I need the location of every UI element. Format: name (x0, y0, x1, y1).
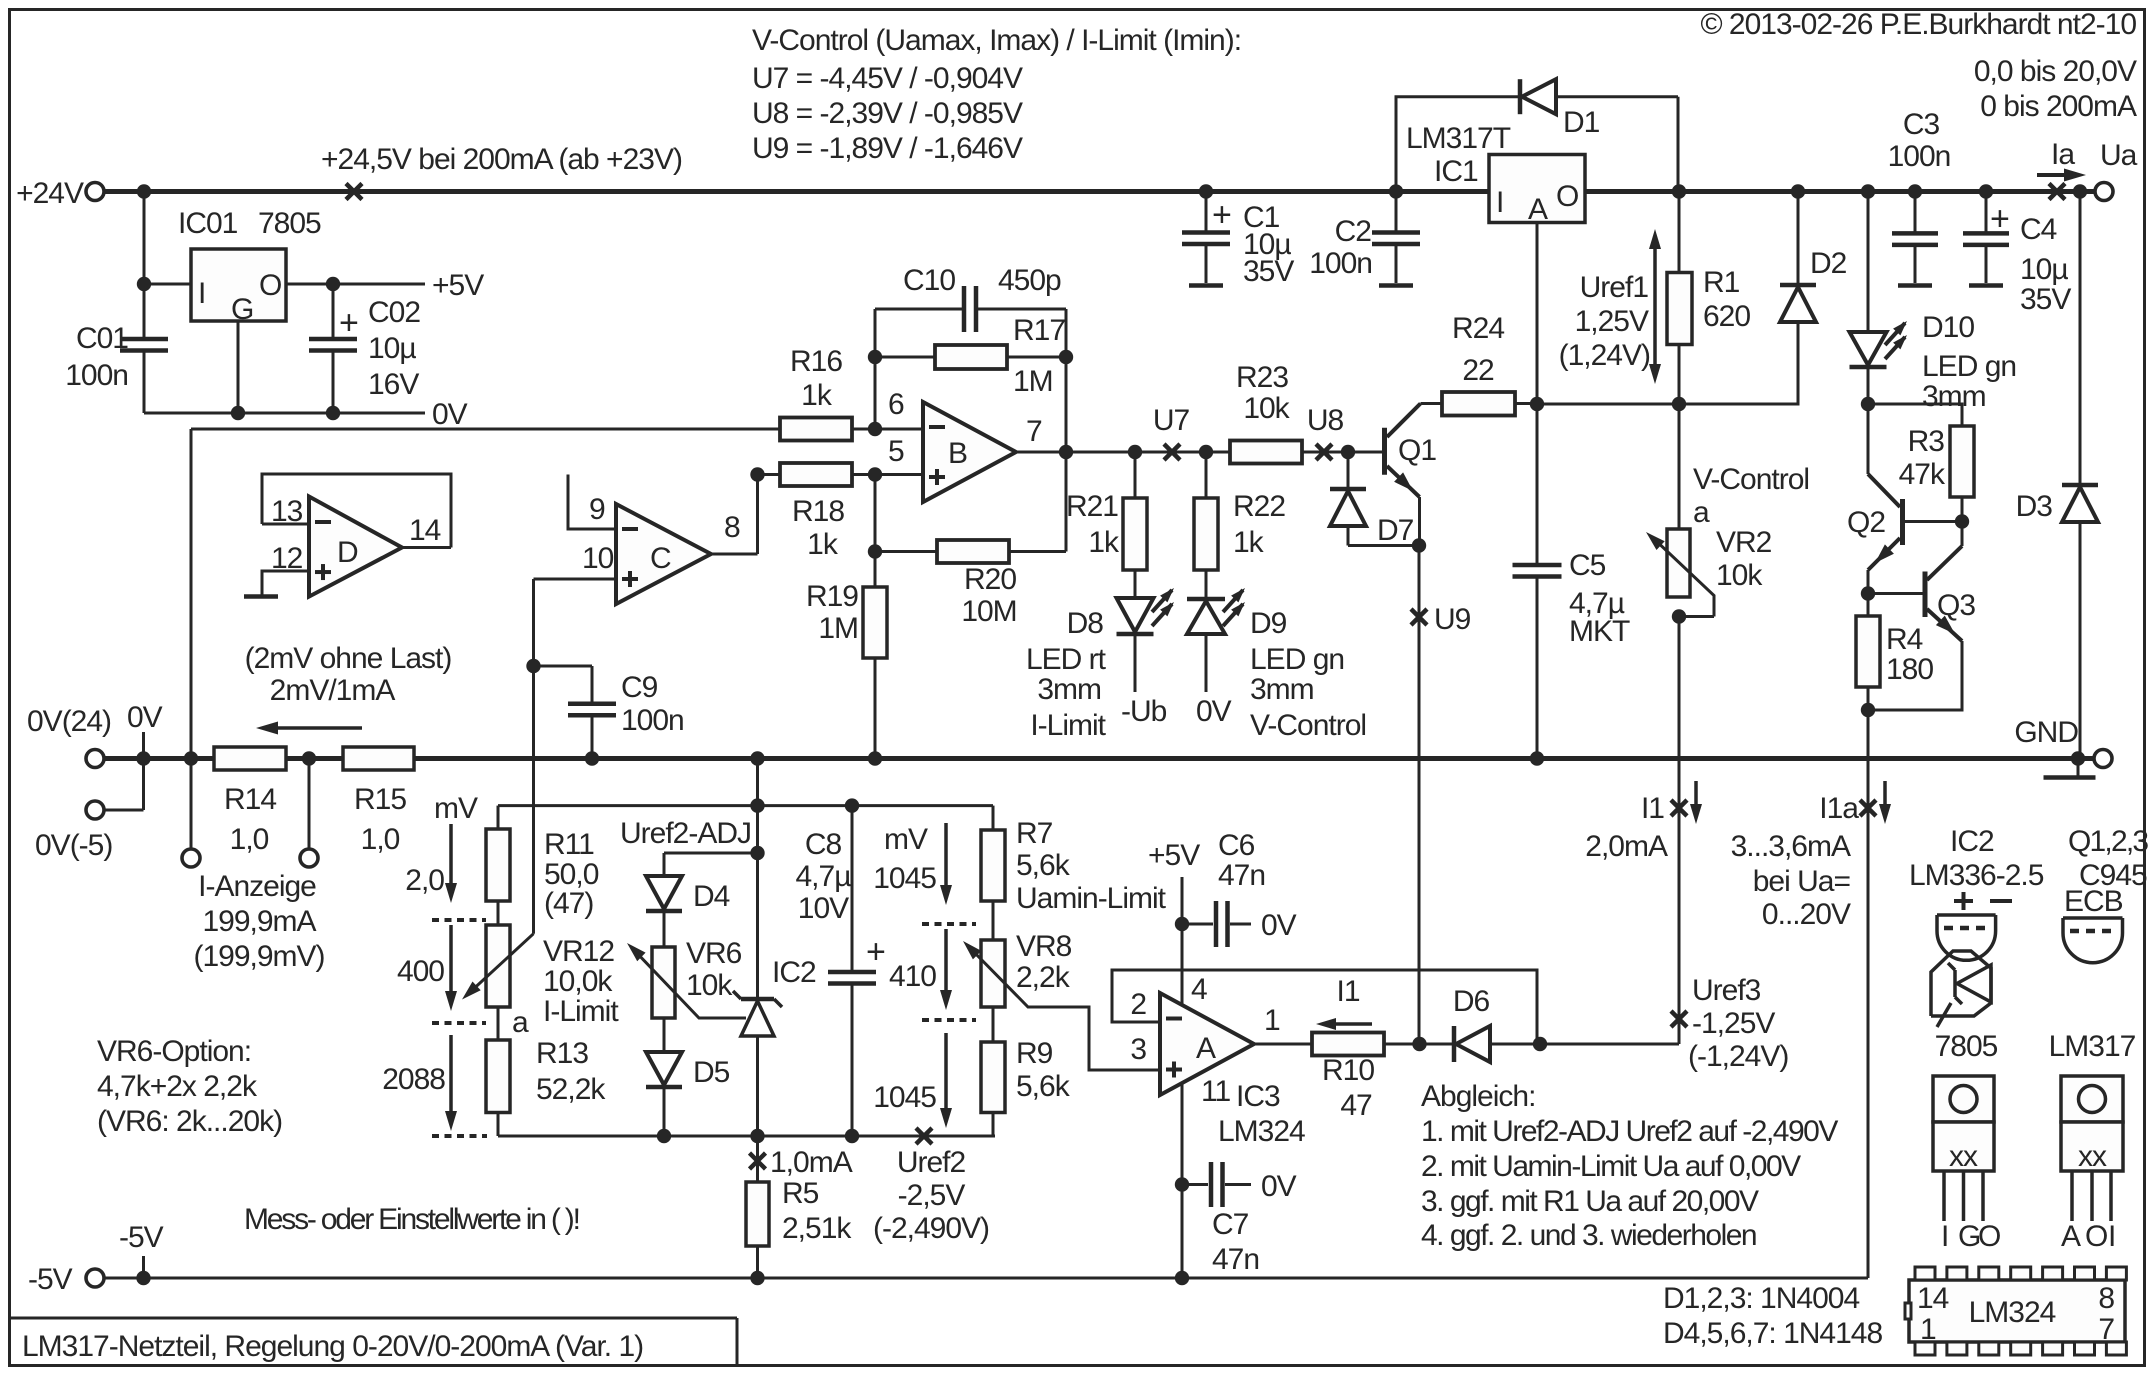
node D10 bottom junction (1861, 397, 1875, 411)
resistor R11 (497, 806, 500, 829)
node 0V terminal junction (136, 751, 150, 765)
wire divider top (756, 759, 759, 806)
svg-text:10µ: 10µ (2020, 253, 2068, 286)
terminal GND (2094, 750, 2112, 768)
svg-text:C: C (650, 542, 671, 575)
svg-text:LM317T: LM317T (1406, 122, 1511, 155)
svg-text:+5V: +5V (432, 269, 484, 302)
op-amp C pin 10 wire (534, 578, 617, 581)
wire sense line to R16 (191, 428, 780, 431)
svg-text:IC2: IC2 (772, 956, 816, 989)
resistor R15 (343, 747, 414, 770)
svg-text:-5V: -5V (119, 1221, 164, 1254)
svg-text:10M: 10M (961, 595, 1016, 628)
net 0V rail (103, 756, 2094, 761)
node divider top junction (750, 798, 764, 812)
svg-text:D5: D5 (693, 1056, 730, 1089)
svg-text:3mm: 3mm (1037, 673, 1101, 706)
net -5V rail (103, 1277, 1868, 1280)
node R21 junction (1128, 445, 1142, 459)
terminal I-Anzeige 2 (300, 849, 318, 867)
svg-text:4,7k+2x 2,2k: 4,7k+2x 2,2k (97, 1070, 258, 1103)
svg-text:(-2,490V): (-2,490V) (873, 1212, 989, 1245)
svg-text:Q3: Q3 (1937, 589, 1975, 622)
node pin7 junction (1059, 445, 1073, 459)
svg-text:R11: R11 (544, 828, 594, 861)
op-amp U1C (616, 504, 711, 604)
wire I1 line down (1678, 617, 1681, 1045)
node R17 left (868, 350, 882, 364)
svg-text:(199,9mV): (199,9mV) (193, 940, 324, 973)
cross I1 (1671, 800, 1687, 816)
svg-text:Ua: Ua (2100, 139, 2138, 172)
svg-text:-1,25V: -1,25V (1692, 1007, 1775, 1040)
svg-text:10: 10 (582, 542, 614, 575)
svg-text:U7: U7 (1153, 404, 1190, 437)
svg-text:3: 3 (1130, 1033, 1146, 1066)
wire R23 to Q1 (1302, 451, 1348, 454)
svg-text:11: 11 (1201, 1075, 1230, 1108)
svg-text:D10: D10 (1922, 311, 1974, 344)
resistor R10 (1312, 1033, 1384, 1056)
0V bar at op-amp D pin 12 (244, 594, 278, 599)
terminal Ua (2095, 183, 2113, 201)
capacitor C9 (534, 665, 593, 668)
node pin5 junction (868, 467, 882, 481)
svg-text:Abgleich:: Abgleich: (1421, 1080, 1535, 1113)
svg-text:R7: R7 (1016, 817, 1053, 850)
capacitor C01 (120, 337, 168, 342)
resistor R22 (1205, 452, 1208, 498)
svg-text:C5: C5 (1569, 549, 1606, 582)
svg-text:D4: D4 (693, 880, 730, 913)
svg-text:I: I (198, 277, 205, 310)
svg-text:6: 6 (888, 388, 904, 421)
resistor R1 (1678, 192, 1681, 273)
svg-text:I-Limit: I-Limit (543, 995, 619, 1028)
diode D3 (2079, 192, 2082, 486)
wire D5 to bottom (663, 1087, 666, 1136)
node D3 GND junction (2071, 751, 2085, 765)
svg-text:LM317-Netzteil, Regelung 0-20V: LM317-Netzteil, Regelung 0-20V/0-200mA (… (22, 1330, 643, 1363)
svg-text:R17: R17 (1013, 314, 1065, 347)
resistor R20 (875, 550, 937, 553)
resistor R19 (863, 587, 887, 658)
svg-text:-2,5V: -2,5V (898, 1179, 966, 1212)
resistor R23 (1230, 441, 1302, 464)
svg-text:-5V: -5V (28, 1263, 73, 1296)
svg-text:(1,24V): (1,24V) (1559, 339, 1650, 372)
svg-text:(-1,24V): (-1,24V) (1688, 1040, 1788, 1073)
cross U8 (1316, 444, 1332, 460)
capacitor C5 (1536, 404, 1539, 565)
svg-text:5: 5 (888, 435, 904, 468)
svg-text:13: 13 (271, 495, 303, 528)
arrow current direction left (268, 726, 362, 730)
svg-text:VR6: VR6 (686, 937, 742, 970)
svg-text:D1,2,3: 1N4004: D1,2,3: 1N4004 (1663, 1282, 1859, 1315)
svg-text:ECB: ECB (2064, 885, 2123, 918)
node Uref2-ADJ junction (750, 846, 764, 860)
svg-text:C7: C7 (1212, 1208, 1249, 1241)
svg-text:10µ: 10µ (368, 332, 416, 365)
svg-text:Uref1: Uref1 (1580, 271, 1649, 304)
node C9 0V junction (585, 751, 599, 765)
svg-text:14: 14 (1917, 1282, 1949, 1315)
capacitor C2 (1395, 192, 1398, 233)
svg-text:7805: 7805 (258, 207, 321, 240)
svg-text:A: A (1528, 193, 1548, 226)
svg-text:bei Ua=: bei Ua= (1753, 865, 1851, 898)
svg-text:35V: 35V (2020, 283, 2071, 316)
svg-text:© 2013-02-26 P.E.Burkhardt nt2: © 2013-02-26 P.E.Burkhardt nt2-10 (1700, 8, 2136, 41)
resistor R4 (1867, 594, 1870, 617)
svg-text:I-Limit: I-Limit (1030, 709, 1106, 742)
svg-text:G: G (1958, 1220, 1980, 1253)
svg-text:1,0: 1,0 (361, 823, 400, 856)
svg-text:+: + (1990, 200, 2009, 238)
label -5V tap (142, 1256, 145, 1278)
svg-text:10V: 10V (798, 892, 849, 925)
svg-text:Q1,2,3: Q1,2,3 (2068, 825, 2148, 858)
svg-text:+24,5V bei 200mA (ab +23V): +24,5V bei 200mA (ab +23V) (321, 143, 682, 176)
terminal -5V (86, 1269, 104, 1287)
svg-text:LM336-2.5: LM336-2.5 (1909, 859, 2044, 892)
svg-text:R4: R4 (1886, 623, 1923, 656)
svg-text:+: + (339, 304, 358, 342)
svg-text:2088: 2088 (382, 1063, 445, 1096)
wire C10 R17 feedback vertical left (874, 309, 877, 429)
svg-text:7: 7 (2098, 1313, 2114, 1346)
svg-text:R9: R9 (1016, 1037, 1053, 1070)
svg-text:100n: 100n (1309, 247, 1372, 280)
svg-text:I: I (2108, 1220, 2115, 1253)
node Q2 emitter junction (1861, 586, 1875, 600)
diode D4 (663, 853, 666, 876)
svg-text:C6: C6 (1218, 829, 1255, 862)
capacitor C02 (332, 284, 335, 339)
svg-text:9: 9 (589, 493, 605, 526)
svg-text:D7: D7 (1377, 514, 1414, 547)
svg-text:B: B (948, 437, 967, 470)
wire R19 to 0V (874, 658, 877, 759)
svg-text:(2mV ohne Last): (2mV ohne Last) (245, 642, 452, 675)
node I-Anzeige left junction (184, 751, 198, 765)
svg-text:620: 620 (1703, 300, 1750, 333)
resistor R13 (497, 1007, 500, 1040)
capacitor C4 (1985, 192, 1988, 234)
svg-text:R24: R24 (1452, 312, 1504, 345)
diode D2 (1797, 192, 1800, 286)
op-amp U3A (1160, 993, 1254, 1095)
ground tick (2077, 759, 2080, 777)
svg-text:0V(24): 0V(24) (27, 705, 111, 738)
svg-text:4: 4 (1191, 973, 1207, 1006)
svg-text:D2: D2 (1810, 247, 1847, 280)
svg-text:14: 14 (409, 514, 441, 547)
svg-text:1. mit Uref2-ADJ Uref2 auf -2,: 1. mit Uref2-ADJ Uref2 auf -2,490V (1421, 1115, 1838, 1148)
svg-text:2,2k: 2,2k (1016, 961, 1071, 994)
node ADJ R24 junction (1530, 397, 1544, 411)
svg-text:(VR6: 2k...20k): (VR6: 2k...20k) (97, 1105, 282, 1138)
node Q1 base junction (1341, 445, 1355, 459)
svg-text:1,0mA: 1,0mA (770, 1146, 853, 1179)
svg-text:0V(-5): 0V(-5) (35, 829, 112, 862)
svg-text:47n: 47n (1218, 859, 1265, 892)
svg-text:D: D (337, 536, 358, 569)
node R17 right (1059, 350, 1073, 364)
wire pin 11 down (1181, 1083, 1184, 1278)
wire IC1 ADJ pin (1536, 223, 1539, 405)
svg-text:2,0: 2,0 (405, 864, 444, 897)
svg-text:100n: 100n (65, 359, 128, 392)
transistor Q2 (1867, 404, 1870, 474)
svg-text:+5V: +5V (1148, 839, 1200, 872)
svg-text:IC2: IC2 (1950, 825, 1994, 858)
svg-text:0 bis 200mA: 0 bis 200mA (1980, 90, 2137, 123)
svg-text:R22: R22 (1233, 490, 1285, 523)
svg-text:IC3: IC3 (1236, 1080, 1280, 1113)
svg-text:VR8: VR8 (1016, 930, 1072, 963)
capacitor C10 (875, 308, 964, 311)
svg-text:1: 1 (1920, 1313, 1936, 1346)
potentiometer VR12 (497, 901, 500, 925)
svg-text:C4: C4 (2020, 213, 2057, 246)
svg-text:I1a: I1a (1819, 792, 1859, 825)
op-amp D pin 12 wire (262, 571, 309, 597)
node C7 -5V junction (1175, 1271, 1189, 1285)
svg-text:1k: 1k (1233, 526, 1265, 559)
svg-text:R18: R18 (792, 495, 844, 528)
svg-text:+: + (866, 933, 885, 971)
svg-text:47k: 47k (1899, 458, 1946, 491)
svg-text:Ia: Ia (2051, 138, 2075, 171)
resistor R3 (1868, 404, 1962, 426)
svg-text:R15: R15 (354, 783, 406, 816)
svg-text:16V: 16V (368, 368, 419, 401)
svg-text:1k: 1k (807, 528, 839, 561)
terminal 0V(24) (86, 750, 104, 768)
svg-text:U7 = -4,45V / -0,904V: U7 = -4,45V / -0,904V (752, 62, 1023, 95)
potentiometer VR8 (992, 901, 995, 940)
potentiometer VR6 (663, 911, 666, 947)
package drawing LM324 DIP-14 (1909, 1280, 2125, 1342)
node I-Anzeige right junction (302, 751, 316, 765)
capacitor C1 (1205, 192, 1208, 233)
svg-text:GND: GND (2014, 716, 2078, 749)
svg-text:4. ggf. 2. und 3. wiederholen: 4. ggf. 2. und 3. wiederholen (1421, 1219, 1756, 1252)
svg-text:D1: D1 (1563, 106, 1600, 139)
current arrow I1 down (1694, 781, 1698, 812)
node VR2 bottom junction (1672, 609, 1686, 623)
svg-text:R23: R23 (1236, 361, 1288, 394)
svg-text:1M: 1M (1013, 365, 1053, 398)
LED D9 (1187, 597, 1225, 602)
label 0V tap (142, 732, 145, 759)
svg-text:R21: R21 (1066, 490, 1118, 523)
svg-text:1045: 1045 (873, 862, 936, 895)
svg-text:mV: mV (884, 823, 928, 856)
wire R20 to output (1065, 452, 1068, 552)
svg-text:U8 = -2,39V / -0,985V: U8 = -2,39V / -0,985V (752, 97, 1023, 130)
node D5 bottom junction (657, 1129, 671, 1143)
svg-text:IC1: IC1 (1434, 155, 1478, 188)
wire IC01 output +5V (286, 283, 425, 286)
svg-text:Q2: Q2 (1847, 506, 1885, 539)
wire op-amp A output (1254, 1043, 1312, 1046)
svg-text:VR6-Option:: VR6-Option: (97, 1035, 251, 1068)
wire D1 to output node (1556, 95, 1678, 98)
op-amp U1B (923, 402, 1016, 502)
svg-text:G: G (231, 293, 253, 326)
svg-text:I1: I1 (1336, 975, 1359, 1008)
potentiometer VR2 (1678, 404, 1681, 529)
svg-text:O: O (1978, 1220, 2000, 1253)
transistor Q1 (1382, 428, 1387, 475)
svg-text:100n: 100n (1888, 140, 1951, 173)
svg-text:Uref3: Uref3 (1692, 974, 1761, 1007)
svg-text:LED rt: LED rt (1026, 643, 1107, 676)
svg-text:Mess- oder Einstellwerte in (: Mess- oder Einstellwerte in ( )! (244, 1203, 579, 1236)
svg-text:R16: R16 (790, 345, 842, 378)
svg-text:mV: mV (434, 792, 478, 825)
resistor R7 (992, 806, 995, 830)
svg-text:D4,5,6,7: 1N4148: D4,5,6,7: 1N4148 (1663, 1317, 1882, 1350)
cross I1a (1860, 800, 1876, 816)
svg-text:R19: R19 (806, 580, 858, 613)
node IC01 input junction (137, 277, 151, 291)
op-amp D pin 14 wire (402, 546, 451, 549)
svg-text:8: 8 (724, 511, 740, 544)
node G pin junction (231, 406, 245, 420)
regulator IC01 7805 (191, 249, 286, 321)
cross 1,0mA (750, 1153, 766, 1169)
svg-text:400: 400 (397, 955, 444, 988)
node C02 junction (326, 277, 340, 291)
svg-text:LED gn: LED gn (1250, 643, 1344, 676)
wire divider bottom (498, 1135, 995, 1138)
svg-text:+24V: +24V (16, 177, 84, 210)
wire pin5 down to R19/R20 (874, 475, 877, 588)
LED D8 (1117, 598, 1154, 632)
svg-text:O: O (2085, 1220, 2107, 1253)
capacitor C8 (851, 806, 854, 972)
wire output feedback vertical (1065, 309, 1068, 452)
node R5 -5V junction (750, 1271, 764, 1285)
svg-text:4,7µ: 4,7µ (796, 860, 852, 893)
svg-text:xx: xx (2078, 1140, 2107, 1173)
svg-text:Uref2-ADJ: Uref2-ADJ (620, 817, 751, 850)
cross before Ua (2049, 184, 2065, 200)
svg-text:8: 8 (2098, 1282, 2114, 1315)
svg-text:I: I (1496, 186, 1503, 219)
node R4 bottom junction (1861, 703, 1875, 717)
svg-text:LM317: LM317 (2049, 1030, 2136, 1063)
wire base (1348, 451, 1382, 454)
zener IC2 LM336 (756, 853, 759, 999)
svg-text:1k: 1k (801, 379, 833, 412)
svg-text:V-Control: V-Control (1250, 709, 1366, 742)
current arrow I1a down (1883, 781, 1887, 812)
wire IC01 ground pin (237, 321, 240, 413)
svg-text:410: 410 (889, 960, 936, 993)
svg-text:7805: 7805 (1935, 1030, 1998, 1063)
resistor R16 (780, 418, 852, 441)
resistor R24 (1421, 402, 1443, 405)
node R18 left junction (750, 467, 764, 481)
svg-text:C10: C10 (903, 264, 955, 297)
node R1 bottom junction (1672, 397, 1686, 411)
svg-text:a: a (512, 1006, 529, 1039)
svg-text:450p: 450p (998, 264, 1061, 297)
node 0V to divider junction (750, 751, 764, 765)
terminal +24V (86, 183, 104, 201)
svg-text:C8: C8 (805, 828, 842, 861)
svg-text:C3: C3 (1903, 108, 1940, 141)
svg-text:C9: C9 (621, 671, 658, 704)
wire +5V to pin 4 (1181, 877, 1184, 1006)
svg-text:3. ggf. mit R1 Ua auf 20,00V: 3. ggf. mit R1 Ua auf 20,00V (1421, 1185, 1759, 1218)
capacitor C6 (1182, 923, 1213, 926)
wire op-amp B output (1016, 451, 1230, 454)
svg-text:O: O (1556, 180, 1578, 213)
op-amp C pin 8 wire (711, 553, 758, 556)
measurement arrow Uref1 (1653, 240, 1657, 373)
svg-text:A: A (1196, 1032, 1216, 1065)
svg-text:0,0 bis 20,0V: 0,0 bis 20,0V (1974, 55, 2137, 88)
svg-text:I: I (1941, 1220, 1948, 1253)
cross U9 (1411, 609, 1427, 625)
svg-text:3mm: 3mm (1922, 380, 1986, 413)
node R10 D6 junction (1412, 1037, 1426, 1051)
svg-text:A: A (2061, 1220, 2081, 1253)
node R19 0V junction (868, 751, 882, 765)
svg-text:0V: 0V (127, 701, 163, 734)
node pin6 junction (868, 422, 882, 436)
svg-text:MKT: MKT (1569, 615, 1630, 648)
wire 0V of 7805 block (144, 412, 425, 415)
svg-text:7: 7 (1026, 415, 1042, 448)
resistor R21 (1134, 452, 1137, 498)
node C8 bottom junction (845, 1129, 859, 1143)
LED D10 (1867, 192, 1870, 333)
svg-text:D3: D3 (2016, 490, 2053, 523)
wire to I-Anzeige 2 (308, 759, 311, 859)
svg-text:V-Control (Uamax, Imax) / I-Li: V-Control (Uamax, Imax) / I-Limit (Imin)… (752, 24, 1241, 57)
resistor R17 (875, 356, 935, 359)
wire pin10 to VR12 wiper (532, 579, 535, 934)
svg-text:LM324: LM324 (1218, 1115, 1305, 1148)
svg-text:I-Anzeige: I-Anzeige (198, 870, 316, 903)
resistor R9 (992, 1007, 995, 1042)
svg-text:35V: 35V (1243, 255, 1294, 288)
svg-text:-Ub: -Ub (1121, 695, 1167, 728)
svg-text:1M: 1M (818, 612, 858, 645)
diode D1 (1518, 79, 1523, 114)
svg-text:R20: R20 (964, 563, 1016, 596)
svg-text:VR2: VR2 (1716, 526, 1772, 559)
resistor R14 (214, 747, 286, 770)
svg-text:2,0mA: 2,0mA (1585, 830, 1668, 863)
svg-text:3mm: 3mm (1250, 673, 1314, 706)
svg-text:100n: 100n (621, 704, 684, 737)
diode D7 (1347, 452, 1350, 489)
node R22 junction (1199, 445, 1213, 459)
svg-text:Uref2: Uref2 (897, 1146, 966, 1179)
svg-text:12: 12 (271, 542, 303, 575)
transistor Q3 (1868, 592, 1923, 595)
wire +24V to IC01 input (143, 192, 146, 340)
